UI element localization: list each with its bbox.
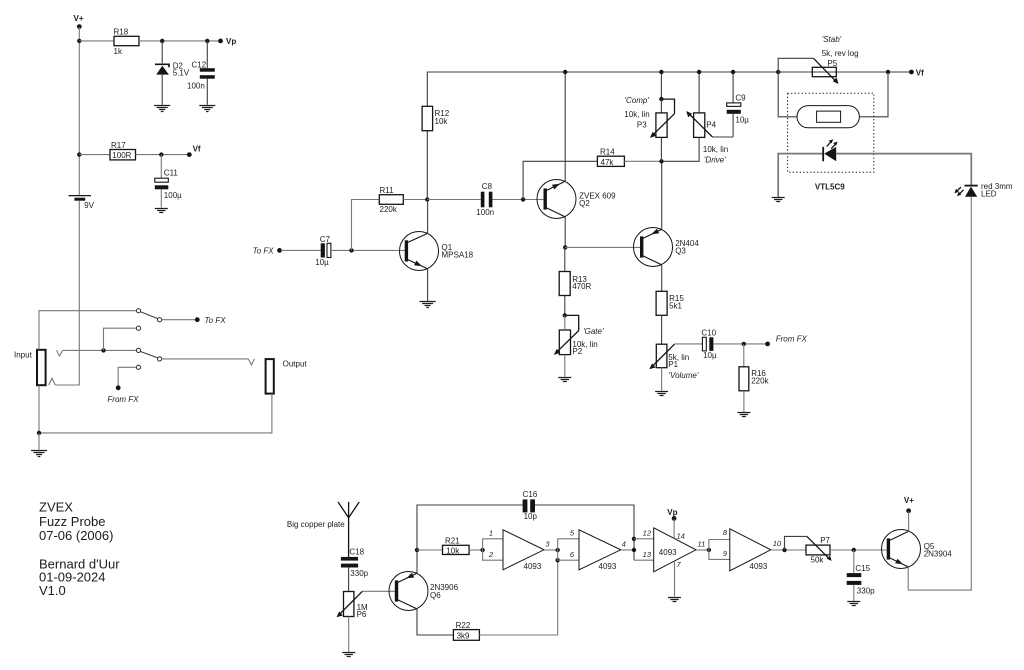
svg-text:2N3904: 2N3904 xyxy=(924,550,953,559)
svg-text:C7: C7 xyxy=(320,235,331,244)
svg-text:R11: R11 xyxy=(380,186,395,195)
transistor Q3 2N404 xyxy=(634,228,700,267)
svg-text:'Volume': 'Volume' xyxy=(669,371,699,380)
resistor R17 100R xyxy=(110,141,136,160)
node Vp terminal xyxy=(218,37,236,46)
ground under C11 xyxy=(155,209,168,213)
resistor R11 220k xyxy=(379,186,403,214)
svg-text:P1: P1 xyxy=(668,360,678,369)
wire node C to R13 xyxy=(564,247,566,271)
node tip junction xyxy=(101,348,105,352)
wire P4 wiper to C9 bottom xyxy=(713,136,734,138)
wire Q6 bottom lead to R22 xyxy=(417,609,453,635)
wire C11 top lead xyxy=(160,155,162,178)
ground main xyxy=(420,302,436,308)
switch SW1a pole contact xyxy=(136,309,140,313)
capacitor C10 10u electrolytic xyxy=(701,329,717,360)
wire R17 to Vf xyxy=(136,154,189,156)
svg-text:C16: C16 xyxy=(523,490,538,499)
wire C7 to Q1 base xyxy=(331,249,406,251)
switch SW1b lever xyxy=(141,352,158,358)
svg-text:4: 4 xyxy=(622,539,626,548)
svg-text:R21: R21 xyxy=(445,537,460,546)
wire junction to R16 xyxy=(743,344,745,367)
ground under gate3 xyxy=(847,602,860,606)
svg-text:4093: 4093 xyxy=(599,562,617,571)
ground under C15 xyxy=(342,653,355,657)
switch SW1a throw contact xyxy=(158,318,162,322)
node R21 junction xyxy=(415,548,419,552)
wire gate3 input stubs xyxy=(634,539,654,560)
potentiometer P1 Volume 5k lin xyxy=(649,344,699,380)
svg-text:5.1V: 5.1V xyxy=(173,69,190,78)
wire junction to ground xyxy=(38,433,40,450)
transistor Q6 2N3906 xyxy=(389,572,459,611)
input tip contact xyxy=(57,350,63,356)
svg-text:11: 11 xyxy=(698,539,706,548)
node C junction Q2e/R13/Q3b xyxy=(563,245,567,249)
node Vf terminal (near R17) xyxy=(187,145,201,157)
wire switch to output tip contact xyxy=(162,358,249,360)
svg-text:10µ: 10µ xyxy=(703,351,717,360)
svg-text:P3: P3 xyxy=(637,120,647,129)
zener diode D2 5.1V xyxy=(155,62,190,78)
switch SW1c lower contact xyxy=(136,365,140,369)
wire C12 to ground xyxy=(206,79,208,105)
node A junction R11/R12/C8 xyxy=(425,197,429,201)
ground under P6 xyxy=(668,598,681,602)
capacitor C18 330p xyxy=(341,547,369,578)
switch SW1b upper contact xyxy=(136,326,140,330)
svg-text:1: 1 xyxy=(489,529,493,538)
wire R13 to P2 node xyxy=(564,296,566,316)
potentiometer P3 Comp 10k lin xyxy=(624,96,674,138)
svg-text:07-06 (2006): 07-06 (2006) xyxy=(39,528,113,543)
svg-text:4093: 4093 xyxy=(524,562,542,571)
battery 9V xyxy=(69,196,95,210)
svg-text:Fuzz Probe: Fuzz Probe xyxy=(39,514,105,529)
node V+ terminal (right) xyxy=(904,496,914,513)
svg-text:P2: P2 xyxy=(572,347,582,356)
svg-text:V1.0: V1.0 xyxy=(39,583,66,598)
wire C18 to P6 xyxy=(348,568,350,592)
svg-text:'Comp': 'Comp' xyxy=(625,96,650,105)
wire input jack bottom to ground rail xyxy=(38,386,40,433)
svg-text:1k: 1k xyxy=(114,47,123,56)
wire LED cathode to ground leg xyxy=(778,154,822,197)
svg-text:R22: R22 xyxy=(456,621,471,630)
svg-text:4093: 4093 xyxy=(750,562,768,571)
wire R18 to D2 to C12 to Vp xyxy=(139,40,219,42)
LED D1 red 3mm xyxy=(954,182,1012,198)
LDR envelope of VTL5C9 xyxy=(797,106,859,128)
svg-text:VTL5C9: VTL5C9 xyxy=(815,182,845,191)
input jack J1 xyxy=(14,350,46,385)
wire tip junction up to bypass contact xyxy=(104,328,137,350)
wire C10 to From FX xyxy=(713,343,766,345)
node ground rail junction xyxy=(37,431,41,435)
junction at R17 row xyxy=(77,152,81,156)
svg-text:Vp: Vp xyxy=(226,37,236,46)
svg-text:C12: C12 xyxy=(192,60,207,69)
svg-text:100n: 100n xyxy=(476,208,494,217)
junction C12 top xyxy=(205,39,209,43)
svg-text:3k9: 3k9 xyxy=(457,631,470,640)
wire P2 top stub xyxy=(564,315,566,330)
wire Q6 top to R21 node xyxy=(416,550,418,573)
node From FX terminal xyxy=(765,334,807,346)
resistor R15 5k1 xyxy=(656,291,684,315)
svg-text:Output: Output xyxy=(283,360,308,369)
svg-text:4093: 4093 xyxy=(659,548,677,557)
wire C16 to gate3 input node xyxy=(535,505,634,560)
switch SW1b throw contact xyxy=(158,357,162,361)
resistor R12 10k xyxy=(422,106,450,130)
wire gate4 output to P7 xyxy=(771,549,806,551)
svg-text:10k: 10k xyxy=(446,546,460,555)
SECTION: title block xyxy=(39,500,120,598)
junction P5 right at rail xyxy=(886,70,890,74)
capacitor C12 100n xyxy=(187,60,215,90)
svg-text:47k: 47k xyxy=(601,158,615,167)
svg-text:10: 10 xyxy=(773,539,782,548)
node Vf terminal (right) xyxy=(909,68,924,77)
wire R22 to gate2 input node xyxy=(479,560,557,635)
wire junction up to R14 xyxy=(523,161,597,199)
wire V+ vertical bus down to battery xyxy=(78,27,80,196)
svg-text:From FX: From FX xyxy=(776,334,808,343)
switch SW1a lever xyxy=(141,312,158,319)
node gate2 input junction xyxy=(556,548,560,552)
node R16 top junction xyxy=(742,342,746,346)
svg-text:'Gate': 'Gate' xyxy=(583,327,604,336)
wire To FX to C7 xyxy=(281,249,321,251)
svg-text:P7: P7 xyxy=(820,536,830,545)
capacitor C16 10p xyxy=(523,490,538,521)
transistor Q5 2N3904 xyxy=(882,530,953,569)
wire gate2 output to gate3 xyxy=(621,549,634,551)
input sleeve contact xyxy=(49,378,56,385)
node Q1 base junction xyxy=(349,248,353,252)
wire node A to C8 xyxy=(427,199,481,201)
svg-text:C18: C18 xyxy=(349,547,364,556)
svg-text:5k1: 5k1 xyxy=(669,302,682,311)
node gate3 upper stub junction xyxy=(632,537,636,541)
svg-text:P6: P6 xyxy=(357,610,367,619)
svg-text:Vf: Vf xyxy=(193,145,201,154)
svg-text:C11: C11 xyxy=(164,169,179,178)
junction D2 top xyxy=(160,39,164,43)
svg-text:10µ: 10µ xyxy=(735,115,749,124)
wire rail top xyxy=(427,72,911,200)
potentiometer P7 50k xyxy=(785,536,832,565)
switch SW1b pole contact xyxy=(136,348,140,352)
node Vp terminal (oscillator) xyxy=(667,508,677,521)
node P3 top junction xyxy=(659,97,663,101)
node From FX (switch) xyxy=(107,385,139,404)
svg-text:10k, lin: 10k, lin xyxy=(703,145,728,154)
capacitor C9 10u electrolytic xyxy=(727,94,750,125)
transistor Q2 ZVEX 609 xyxy=(537,180,616,219)
resistor R13 470R xyxy=(559,272,591,296)
ground under R16 xyxy=(737,413,750,417)
node P2 top junction xyxy=(563,313,567,317)
resistor R14 47k xyxy=(597,148,624,167)
svg-text:To FX: To FX xyxy=(253,246,275,255)
svg-text:Input: Input xyxy=(14,351,33,360)
wire C15 to ground xyxy=(853,585,855,601)
antenna big copper plate xyxy=(287,502,359,557)
wire R14 to node B xyxy=(624,160,661,162)
wire C8 to Q2 base xyxy=(492,199,543,201)
wire gate4 input stubs xyxy=(709,540,730,560)
wire to R18 xyxy=(79,40,114,42)
wire to To FX terminal xyxy=(162,319,196,321)
junction C11 top xyxy=(159,152,163,156)
potentiometer P4 Drive 10k lin xyxy=(686,111,728,164)
wire lower contact to From FX terminal xyxy=(118,367,136,386)
node Q2 base junction xyxy=(521,197,525,201)
capacitor C8 100n xyxy=(476,182,494,217)
potentiometer P6 1M xyxy=(337,591,369,619)
node V+ (top left) xyxy=(74,14,84,29)
svg-text:R17: R17 xyxy=(111,141,126,150)
svg-text:ZVEX: ZVEX xyxy=(39,500,73,515)
resistor R18 1k xyxy=(114,28,140,57)
junction P5 left at rail xyxy=(776,70,780,74)
wire D2 top lead xyxy=(161,41,163,63)
svg-text:330p: 330p xyxy=(857,586,875,595)
transistor Q1 MPSA18 xyxy=(400,232,474,271)
capacitor C15 330p xyxy=(847,564,875,596)
svg-text:2: 2 xyxy=(488,550,494,559)
wire Q3 emitter down to R15 xyxy=(661,265,663,291)
wire Q1 collector up to node A xyxy=(427,201,429,233)
svg-text:From FX: From FX xyxy=(107,395,139,404)
wire R21 to gate1 inputs xyxy=(469,549,483,551)
svg-text:Vf: Vf xyxy=(916,68,924,77)
wire node C to Q3 base xyxy=(565,246,640,248)
node To FX terminal (input of fuzz) xyxy=(253,246,282,255)
wire output jack bottom to ground rail xyxy=(39,394,272,433)
wire gate1 input stubs xyxy=(483,539,503,560)
svg-text:V+: V+ xyxy=(904,496,914,505)
wire LED anode to red LED xyxy=(836,154,971,186)
output jack J2 xyxy=(266,359,308,394)
svg-text:9V: 9V xyxy=(84,201,94,210)
junction Q2 collector at rail xyxy=(563,70,567,74)
svg-text:10p: 10p xyxy=(524,512,538,521)
svg-text:'Drive': 'Drive' xyxy=(704,155,726,164)
ground under P1 xyxy=(655,392,668,396)
nand gate U1b 4093 xyxy=(570,529,626,571)
wire Vp to pin 14 xyxy=(673,519,675,538)
svg-text:Vp: Vp xyxy=(667,508,677,517)
wire P6 to ground xyxy=(348,617,350,653)
svg-text:C10: C10 xyxy=(701,329,716,338)
svg-text:C8: C8 xyxy=(482,182,493,191)
wire C11 to ground xyxy=(160,189,162,207)
node To FX (switch) xyxy=(195,316,226,325)
wire C12 top lead xyxy=(206,41,208,68)
wire P4 bottom jog to node B xyxy=(663,137,699,161)
wire junction up to R11 xyxy=(352,200,380,251)
wire rail to C9 xyxy=(732,72,734,103)
svg-text:Big copper plate: Big copper plate xyxy=(287,520,345,529)
svg-text:C9: C9 xyxy=(735,94,746,103)
wire to R17 xyxy=(79,154,110,156)
svg-text:220k: 220k xyxy=(751,377,769,386)
resistor R16 220k xyxy=(739,367,770,391)
wire R15 to P1 xyxy=(661,315,663,344)
svg-text:10µ: 10µ xyxy=(315,258,329,267)
wire input jack top to switch row 1 xyxy=(39,311,136,350)
capacitor C11 100u electrolytic xyxy=(155,169,182,200)
svg-text:'Stab': 'Stab' xyxy=(822,35,842,44)
wire P6 wiper to Q6 base xyxy=(362,590,395,592)
resistor R22 3k9 xyxy=(453,621,479,640)
output tip contact xyxy=(248,359,254,365)
svg-text:12: 12 xyxy=(643,529,652,538)
node C15 junction xyxy=(852,548,856,552)
potentiometer P5 Stab 5k rev log xyxy=(778,35,858,84)
wire R21 row xyxy=(417,549,443,551)
svg-text:P5: P5 xyxy=(827,59,837,68)
ground under P2 xyxy=(558,378,571,382)
resistor R21 10k xyxy=(443,537,470,556)
svg-text:10k, lin: 10k, lin xyxy=(624,110,649,119)
LED of VTL5C9 xyxy=(823,139,838,161)
svg-text:13: 13 xyxy=(643,550,652,559)
wire junction up to C16 xyxy=(417,505,523,550)
wire Q1 emitter to ground xyxy=(427,269,429,301)
svg-text:10k: 10k xyxy=(435,117,449,126)
ground under D2 xyxy=(154,106,170,112)
svg-text:100µ: 100µ xyxy=(164,191,182,200)
wire P1 wiper to C10 xyxy=(675,343,703,345)
svg-text:MPSA18: MPSA18 xyxy=(442,251,474,260)
node gate4 input junction xyxy=(707,548,711,552)
node gate3 input junction xyxy=(632,548,636,552)
node B junction R14/P3/P4/Q3c xyxy=(659,159,663,163)
ground under C12 xyxy=(199,106,215,112)
nand gate U1a 4093 xyxy=(488,529,551,571)
svg-text:50k: 50k xyxy=(811,556,825,565)
svg-text:14: 14 xyxy=(677,532,685,541)
ground under opto LED xyxy=(772,198,785,202)
svg-text:Q6: Q6 xyxy=(430,591,441,600)
wire rail to LDR left xyxy=(778,72,797,117)
svg-text:Q2: Q2 xyxy=(579,199,590,208)
wire gate2 input stubs xyxy=(558,539,579,560)
wire battery negative down to sleeve contact xyxy=(55,201,79,385)
wire gate3 output to gate4 xyxy=(696,549,709,551)
wire pin 7 to ground xyxy=(674,561,676,597)
wire P3 bottom to node B xyxy=(660,137,662,161)
svg-text:LED: LED xyxy=(981,189,997,198)
node gate1 input junction xyxy=(480,548,484,552)
nand gate U1d 4093 xyxy=(723,528,782,571)
wire P1 to ground xyxy=(661,368,663,391)
node gate2 lower stub junction xyxy=(556,558,560,562)
svg-text:P4: P4 xyxy=(706,120,716,129)
capacitor C7 10u electrolytic xyxy=(315,235,331,267)
junction P4 at rail xyxy=(697,70,701,74)
svg-text:To FX: To FX xyxy=(205,316,227,325)
svg-text:R14: R14 xyxy=(600,148,615,157)
svg-text:Q3: Q3 xyxy=(675,246,686,255)
wire Q3 collector up to node B xyxy=(661,161,663,229)
nand gate U1c 4093 xyxy=(643,528,706,572)
wire rail to P3 xyxy=(660,72,662,99)
svg-text:100R: 100R xyxy=(112,151,131,160)
wire V+ to Q5 collector xyxy=(908,512,910,532)
junction C9 at rail xyxy=(731,70,735,74)
wire P7 to Q5 base xyxy=(830,549,887,551)
junction at R18 row xyxy=(77,39,81,43)
ground under Q1 xyxy=(31,451,47,457)
svg-text:5k, rev log: 5k, rev log xyxy=(822,49,859,58)
svg-text:100n: 100n xyxy=(187,82,205,91)
junction P3 at rail xyxy=(659,70,663,74)
wire C9 bottom xyxy=(732,114,734,137)
svg-text:V+: V+ xyxy=(74,14,84,23)
node P7 left junction xyxy=(782,548,786,552)
wire P2 to ground xyxy=(564,355,566,377)
svg-text:R18: R18 xyxy=(114,28,129,37)
wire Q2 emitter down to node C xyxy=(564,217,566,248)
wire D2 to ground xyxy=(161,75,163,105)
svg-text:220k: 220k xyxy=(380,205,398,214)
wire junction to C15 xyxy=(853,550,855,573)
svg-text:330p: 330p xyxy=(350,569,368,578)
wire tip contact to switch row 2 xyxy=(63,349,137,351)
wire gate1 output to gate2 xyxy=(544,549,558,551)
wire LDR right to rail xyxy=(859,72,888,117)
wire red LED down right side to Q5 emitter xyxy=(908,197,971,590)
svg-text:470R: 470R xyxy=(572,282,591,291)
potentiometer P2 Gate 10k lin xyxy=(554,315,604,356)
wire R11 to node A xyxy=(403,199,427,201)
wire Q5 emitter down xyxy=(907,567,909,590)
wire R16 to ground xyxy=(743,391,745,412)
wire rail to P4 xyxy=(698,72,700,113)
dashed box optocoupler U2 xyxy=(788,93,874,172)
wire Q2 collector up to rail xyxy=(564,72,566,181)
svg-text:C15: C15 xyxy=(855,564,870,573)
